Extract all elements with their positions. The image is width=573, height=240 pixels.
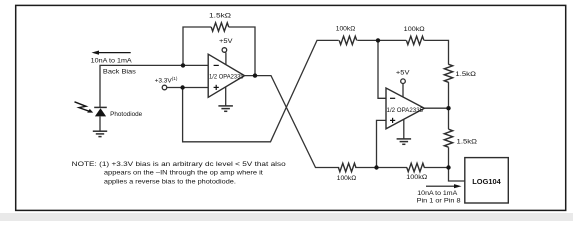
svg-text:100kΩ: 100kΩ [337, 175, 357, 182]
svg-text:100kΩ: 100kΩ [406, 174, 427, 181]
svg-text:Photodiode: Photodiode [110, 111, 142, 118]
svg-text:LOG104: LOG104 [472, 177, 501, 186]
svg-text:100kΩ: 100kΩ [336, 25, 356, 32]
svg-text:1/2 OPA2335: 1/2 OPA2335 [387, 107, 424, 114]
svg-text:10nA to 1mA: 10nA to 1mA [417, 190, 458, 197]
svg-text:Pin 1 or Pin 8: Pin 1 or Pin 8 [417, 198, 462, 205]
svg-text:100kΩ: 100kΩ [404, 26, 425, 33]
svg-text:+5V: +5V [219, 38, 233, 45]
svg-text:+5V: +5V [396, 70, 410, 77]
svg-text:1.5kΩ: 1.5kΩ [455, 71, 476, 78]
svg-text:1.5kΩ: 1.5kΩ [209, 12, 231, 19]
svg-text:1/2 OPA2335: 1/2 OPA2335 [209, 74, 244, 81]
svg-text:1.5kΩ: 1.5kΩ [457, 138, 478, 145]
svg-text:NOTE: (1) +3.3V bias is an arb: NOTE: (1) +3.3V bias is an arbitrary dc … [72, 161, 286, 168]
svg-text:applies a reverse bias to the: applies a reverse bias to the photodiode… [104, 178, 236, 185]
svg-text:Back Bias: Back Bias [103, 69, 137, 76]
svg-text:10nA to 1mA: 10nA to 1mA [91, 57, 133, 64]
svg-text:appears on the –IN through the: appears on the –IN through the op amp wh… [104, 170, 263, 177]
